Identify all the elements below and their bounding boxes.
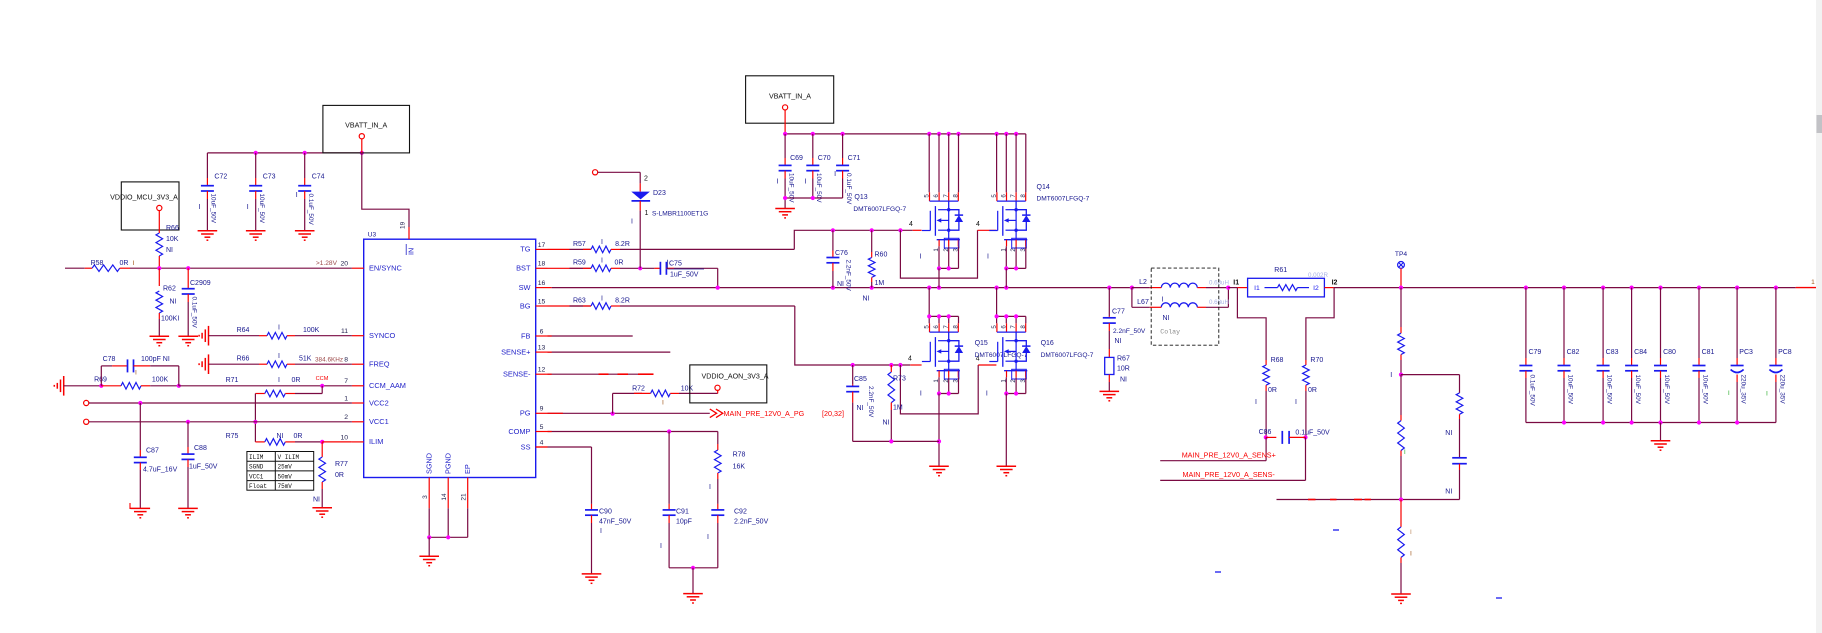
svg-text:100pF NI: 100pF NI — [141, 356, 170, 363]
svg-text:R66: R66 — [166, 225, 179, 232]
svg-text:8: 8 — [1020, 325, 1027, 329]
svg-text:EP: EP — [463, 464, 472, 474]
svg-text:I: I — [1410, 529, 1412, 536]
svg-text:2.2nF_50V: 2.2nF_50V — [734, 519, 769, 526]
svg-text:NI: NI — [1445, 430, 1452, 437]
svg-text:I: I — [278, 353, 280, 360]
svg-text:1: 1 — [1811, 279, 1815, 286]
svg-text:7: 7 — [943, 325, 950, 329]
svg-text:CCM_AAM: CCM_AAM — [369, 381, 406, 390]
ground below R77 — [312, 507, 332, 509]
svg-text:10pF: 10pF — [676, 519, 692, 526]
transistor Q13 DMT6007LFGQ-7 — [929, 192, 931, 201]
svg-text:VCC1: VCC1 — [369, 417, 389, 426]
svg-text:10: 10 — [340, 434, 348, 441]
svg-text:2: 2 — [644, 176, 648, 183]
svg-text:6: 6 — [1001, 194, 1008, 198]
svg-text:SW: SW — [519, 283, 531, 292]
svg-text:5: 5 — [991, 325, 998, 329]
svg-text:R77: R77 — [335, 461, 348, 468]
svg-text:C81: C81 — [1702, 349, 1715, 356]
wire output cap bank ground bus — [1526, 422, 1776, 424]
resistor R70 0R — [1306, 288, 1334, 360]
svg-text:I: I — [920, 254, 922, 261]
svg-text:R59: R59 — [573, 260, 586, 267]
svg-text:6: 6 — [933, 325, 940, 329]
ground below Q16 — [997, 465, 1017, 467]
svg-text:Q15: Q15 — [975, 340, 988, 347]
svg-text:I: I — [631, 219, 633, 226]
ground below Q15 — [929, 465, 949, 467]
transistor Q16 DMT6007LFGQ-7 — [996, 323, 998, 332]
svg-text:7: 7 — [1010, 325, 1017, 329]
svg-text:R67: R67 — [1117, 356, 1130, 363]
transistor Q14 DMT6007LFGQ-7 — [996, 192, 998, 201]
wire MAIN_PRE_12V0_A_SENS- net — [1305, 437, 1307, 480]
wire CCM_AAM net — [179, 385, 352, 387]
svg-text:NI: NI — [170, 299, 177, 306]
svg-text:1M: 1M — [875, 280, 885, 287]
ground below C73 — [246, 230, 266, 232]
svg-text:1M: 1M — [893, 405, 903, 412]
svg-text:C90: C90 — [599, 509, 612, 516]
wire VDDIO_MCU to R66 — [158, 211, 160, 233]
U3 pin 13 SENSE+ — [536, 351, 548, 353]
capacitor C70 10uF_50V — [812, 134, 814, 158]
svg-text:7: 7 — [344, 378, 348, 385]
capacitor C82 10uF_50V — [1563, 288, 1565, 358]
svg-text:BG: BG — [520, 301, 531, 310]
U3 pin 5 COMP — [536, 431, 548, 433]
svg-text:8: 8 — [952, 325, 959, 329]
svg-text:R78: R78 — [733, 452, 746, 459]
svg-text:TP4: TP4 — [1395, 251, 1408, 258]
svg-text:I: I — [278, 325, 280, 332]
svg-text:C87: C87 — [146, 448, 159, 455]
resistor R63 8.2R — [548, 305, 584, 307]
svg-text:MAIN_PRE_12V0_A_SENS+: MAIN_PRE_12V0_A_SENS+ — [1182, 450, 1276, 459]
U3 pin 19 IN stub — [408, 218, 410, 227]
resistor R71 0R — [255, 393, 264, 395]
svg-text:C73: C73 — [263, 174, 276, 181]
power port VBATT_IN_A top — [746, 76, 834, 123]
svg-text:D23: D23 — [653, 190, 666, 197]
svg-text:C2909: C2909 — [190, 280, 211, 287]
wire SW to Q15 drain comb — [928, 288, 930, 317]
svg-text:SENSE+: SENSE+ — [501, 347, 530, 356]
svg-text:NI: NI — [1120, 377, 1127, 384]
svg-text:[20,32]: [20,32] — [822, 409, 844, 418]
svg-text:I2: I2 — [1332, 280, 1338, 287]
svg-text:6: 6 — [933, 194, 940, 198]
svg-text:S-LMBR1100ET1G: S-LMBR1100ET1G — [652, 211, 708, 218]
svg-text:COMP: COMP — [508, 427, 530, 436]
resistor divider bottom — [1400, 500, 1402, 527]
wire Q15 source to ground — [938, 377, 940, 393]
svg-text:0R: 0R — [1268, 387, 1277, 394]
svg-text:4: 4 — [908, 355, 912, 362]
svg-text:100K: 100K — [303, 327, 320, 334]
svg-text:I: I — [600, 528, 602, 535]
scrollbar track — [1816, 0, 1822, 633]
resistor R66 51K — [209, 363, 260, 365]
svg-text:10K: 10K — [166, 236, 179, 243]
capacitor C91 10pF — [668, 432, 670, 504]
svg-text:PG: PG — [520, 409, 531, 418]
wire Q13 source to SW — [928, 134, 930, 192]
svg-text:100KI: 100KI — [161, 316, 179, 323]
svg-text:5: 5 — [540, 424, 544, 431]
inductor L67 NI — [1131, 288, 1133, 308]
resistor NI branch — [1459, 375, 1461, 393]
wire Q14 gate routing — [900, 230, 977, 278]
capacitor C84 10uF_50V — [1631, 288, 1633, 358]
svg-text:FB: FB — [521, 331, 531, 340]
ground below C74 — [295, 230, 315, 232]
svg-text:C85: C85 — [854, 376, 867, 383]
svg-text:PC8: PC8 — [1778, 349, 1792, 356]
svg-text:R68: R68 — [1271, 357, 1284, 364]
diode D23 S-LMBR1100ET1G — [593, 170, 598, 175]
capacitor C79 0.1uF_50V — [1525, 288, 1527, 358]
svg-text:21: 21 — [461, 493, 468, 501]
U3 pin 8 FREQ — [352, 363, 364, 365]
svg-text:DMT6007LFGQ-7: DMT6007LFGQ-7 — [975, 352, 1028, 359]
svg-text:R73: R73 — [893, 376, 906, 383]
ground rotated for R64 — [208, 326, 210, 346]
svg-text:0.1uF_50V: 0.1uF_50V — [845, 173, 852, 205]
svg-text:0.1uF_50V: 0.1uF_50V — [190, 297, 197, 329]
svg-text:8: 8 — [952, 194, 959, 198]
svg-text:MAIN_PRE_12V0_A_SENS-: MAIN_PRE_12V0_A_SENS- — [1183, 470, 1276, 479]
svg-text:I1: I1 — [1254, 285, 1260, 292]
U3 pin 16 SW — [536, 287, 548, 289]
power port VBATT_IN_A left — [323, 105, 410, 152]
svg-text:47nF_50V: 47nF_50V — [599, 519, 632, 526]
capacitor C81 10uF_50V — [1698, 288, 1700, 358]
node I2 — [1324, 287, 1333, 289]
svg-text:CCM: CCM — [316, 376, 329, 382]
svg-text:>1.28V: >1.28V — [316, 260, 338, 267]
svg-text:18: 18 — [538, 261, 546, 268]
svg-text:PC3: PC3 — [1739, 349, 1753, 356]
ground below U3 — [419, 555, 439, 557]
wire Q16 source to ground — [1005, 377, 1007, 393]
svg-text:I: I — [1766, 391, 1768, 398]
svg-text:R62: R62 — [163, 286, 176, 293]
svg-text:4.7uF_16V: 4.7uF_16V — [143, 467, 178, 474]
svg-text:TG: TG — [520, 245, 531, 254]
svg-text:I: I — [662, 400, 664, 407]
svg-text:NI: NI — [883, 420, 890, 427]
svg-text:R72: R72 — [632, 386, 645, 393]
wire C69 C70 C71 ground bus — [784, 179, 786, 209]
wire PG net — [548, 412, 710, 414]
U3 pin 2 VCC1 — [352, 421, 364, 423]
svg-text:R60: R60 — [875, 252, 888, 259]
ground below COMP network — [683, 593, 703, 595]
svg-text:SS: SS — [521, 442, 531, 451]
svg-text:8: 8 — [1020, 194, 1027, 198]
svg-text:9: 9 — [540, 406, 544, 413]
svg-text:R63: R63 — [573, 297, 586, 304]
svg-text:I2: I2 — [1313, 285, 1319, 292]
svg-text:10R: 10R — [1117, 366, 1130, 373]
svg-text:1uF_50V: 1uF_50V — [670, 272, 699, 279]
svg-text:C84: C84 — [1634, 349, 1647, 356]
resistor R62 NI 100K — [158, 268, 160, 286]
ground below C90 — [582, 573, 602, 575]
capacitor C86 0.1uF_50V — [1264, 435, 1268, 439]
svg-text:2: 2 — [344, 414, 348, 421]
wire VCC2 net — [89, 402, 352, 404]
U3 pin 10 ILIM — [352, 441, 364, 443]
svg-text:FREQ: FREQ — [369, 360, 390, 369]
svg-text:0.1uF_50V: 0.1uF_50V — [1295, 429, 1330, 436]
IC U3 buck controller body — [364, 239, 536, 477]
svg-text:NI: NI — [857, 405, 864, 412]
svg-text:I: I — [1728, 390, 1730, 397]
svg-text:0R: 0R — [120, 260, 129, 267]
off-page connector MAIN_PRE_12V0_A_PG — [710, 409, 717, 418]
wire MAIN_PRE_12V0_A_SENS+ net — [1265, 437, 1267, 460]
svg-text:10uF_50V: 10uF_50V — [815, 173, 822, 203]
svg-text:C69: C69 — [790, 155, 803, 162]
capacitor PC8 220u_35V — [1775, 288, 1777, 358]
wire COMP network bottom — [669, 567, 718, 569]
capacitor C90 47nF_50V — [591, 504, 593, 510]
svg-text:20: 20 — [340, 261, 348, 268]
svg-text:C80: C80 — [1663, 349, 1676, 356]
svg-text:V ILIM: V ILIM — [278, 454, 300, 461]
svg-text:50mV: 50mV — [278, 473, 293, 480]
capacitor PC3 220u_35V — [1736, 288, 1738, 358]
svg-text:L2: L2 — [1139, 279, 1147, 286]
svg-text:I: I — [804, 179, 806, 186]
resistor R58 0R — [65, 267, 85, 269]
U3 pin 17 TG — [536, 248, 548, 250]
svg-text:0R: 0R — [292, 377, 301, 384]
svg-text:10uF_50V: 10uF_50V — [1701, 375, 1708, 405]
U3 pin 11 SYNCO — [352, 335, 364, 337]
svg-text:VBATT_IN_A: VBATT_IN_A — [345, 122, 387, 130]
resistor R64 100K — [209, 335, 260, 337]
wire VBATT cap bus top-left — [207, 152, 361, 154]
svg-text:Colay: Colay — [1160, 329, 1180, 336]
wire SW net — [548, 287, 552, 289]
wire SENSE+ net — [548, 351, 671, 353]
svg-text:I: I — [247, 204, 249, 211]
resistor divider mid — [1400, 375, 1402, 415]
svg-text:100K: 100K — [152, 377, 169, 384]
svg-text:R70: R70 — [1310, 357, 1323, 364]
svg-text:6: 6 — [1001, 325, 1008, 329]
wire TG to gate bus — [620, 248, 794, 250]
capacitor C69 10uF_50V — [784, 134, 786, 158]
ground below C72 — [198, 230, 218, 232]
svg-text:C70: C70 — [818, 155, 831, 162]
svg-text:10uF_50V: 10uF_50V — [787, 173, 794, 203]
svg-text:C77: C77 — [1112, 309, 1125, 316]
svg-text:8.2R: 8.2R — [615, 241, 630, 248]
svg-text:I: I — [1162, 296, 1164, 303]
ground rotated for R66 — [208, 354, 210, 374]
U3 pin 12 SENSE- — [536, 373, 548, 375]
svg-text:Q14: Q14 — [1037, 184, 1050, 191]
svg-text:16K: 16K — [733, 464, 746, 471]
resistor R75 NI 0R — [255, 441, 264, 443]
svg-text:C91: C91 — [676, 509, 689, 516]
svg-text:I: I — [709, 484, 711, 491]
svg-text:U3: U3 — [368, 232, 377, 239]
svg-text:VCC2: VCC2 — [369, 398, 389, 407]
colay group dashed box — [1151, 268, 1219, 345]
svg-text:C92: C92 — [734, 509, 747, 516]
svg-text:220u_35V: 220u_35V — [1778, 375, 1785, 405]
svg-text:2.2nF_50V: 2.2nF_50V — [867, 386, 874, 418]
svg-text:4: 4 — [909, 221, 913, 228]
resistor R61 0.002R current sense — [1228, 287, 1237, 289]
wire SW to Q16 drain comb — [996, 288, 998, 317]
svg-text:10uF_50V: 10uF_50V — [210, 194, 217, 224]
U3 pin 20 EN/SYNC — [352, 267, 364, 269]
wire R71 to VCC1 node — [254, 394, 256, 442]
capacitor C78 100pF NI — [100, 366, 102, 386]
transistor Q15 DMT6007LFGQ-7 — [929, 323, 931, 332]
svg-text:VDDIO_AON_3V3_A: VDDIO_AON_3V3_A — [701, 373, 768, 381]
U3 pin 7 CCM_AAM — [352, 385, 364, 387]
wire feedback bottom rail — [1277, 499, 1460, 501]
svg-text:1: 1 — [645, 210, 649, 217]
wire Q14 source to SW — [996, 134, 998, 192]
svg-text:I: I — [1404, 449, 1406, 456]
svg-text:19: 19 — [400, 221, 407, 229]
svg-text:C74: C74 — [312, 174, 325, 181]
power port VDDIO_MCU_3V3_A — [121, 182, 179, 230]
svg-text:C82: C82 — [1567, 349, 1580, 356]
svg-text:I: I — [1390, 372, 1392, 379]
svg-text:I: I — [1410, 551, 1412, 558]
ground below R67 — [1100, 390, 1120, 392]
svg-text:5: 5 — [924, 194, 931, 198]
capacitor C76 2.2nF_50V NI — [832, 230, 834, 250]
svg-text:0.1uF_50V: 0.1uF_50V — [307, 194, 314, 226]
svg-text:I: I — [707, 534, 709, 541]
ground below C88 — [178, 507, 198, 509]
svg-text:I: I — [920, 391, 922, 398]
svg-text:NI: NI — [1115, 338, 1122, 345]
svg-text:I: I — [987, 254, 989, 261]
svg-text:6: 6 — [540, 328, 544, 335]
svg-text:VDDIO_MCU_3V3_A: VDDIO_MCU_3V3_A — [110, 194, 178, 202]
svg-text:R75: R75 — [226, 433, 239, 440]
svg-text:0R: 0R — [1308, 387, 1317, 394]
svg-text:C72: C72 — [214, 174, 227, 181]
U3 pin 4 SS — [536, 446, 548, 448]
svg-text:10uF_50V: 10uF_50V — [258, 194, 265, 224]
capacitor C77 2.2nF_50V NI — [1108, 288, 1110, 317]
svg-text:14: 14 — [441, 493, 448, 501]
wire BST node — [620, 267, 654, 269]
svg-text:I: I — [278, 377, 280, 384]
svg-text:Q16: Q16 — [1041, 340, 1054, 347]
node VCC2 terminal — [84, 400, 89, 405]
capacitor C87 4.7uF_16V — [139, 403, 141, 450]
svg-text:IN: IN — [407, 248, 416, 255]
svg-text:0R: 0R — [294, 433, 303, 440]
ground below cap bank — [1651, 440, 1671, 442]
svg-text:1uF_50V: 1uF_50V — [189, 464, 218, 471]
svg-text:I: I — [1255, 399, 1257, 406]
U3 pin 14 PGND — [447, 478, 449, 509]
U3 pin 18 BST — [536, 267, 548, 269]
node divider mid — [1399, 373, 1403, 377]
svg-text:3: 3 — [422, 495, 429, 499]
svg-text:NI: NI — [863, 296, 870, 303]
capacitor C2909 0.1uF_50V — [187, 268, 189, 289]
wire VBATT_IN_A left to bus — [361, 139, 363, 153]
capacitor C73 10uF_50V — [255, 153, 257, 178]
ground below R62 — [150, 335, 170, 337]
wire D23 to BST — [639, 211, 641, 269]
svg-text:5: 5 — [924, 325, 931, 329]
svg-text:ILIM: ILIM — [369, 437, 383, 446]
resistor R68 0R — [1237, 288, 1266, 360]
svg-text:I: I — [834, 171, 836, 178]
resistor R67 10R NI — [1108, 331, 1110, 349]
svg-text:NI: NI — [166, 247, 173, 254]
wire SENSE- net — [548, 373, 653, 375]
svg-text:I1: I1 — [1233, 280, 1239, 287]
svg-text:SGND: SGND — [425, 453, 434, 474]
svg-text:51K: 51K — [299, 356, 312, 363]
capacitor C75 1uF_50V — [654, 267, 660, 269]
U3 pin 6 FB — [536, 335, 548, 337]
svg-text:75mV: 75mV — [278, 483, 293, 490]
wire COMP net — [548, 431, 718, 433]
svg-text:C79: C79 — [1528, 349, 1541, 356]
wire SS net — [536, 446, 548, 448]
svg-text:NI: NI — [1163, 315, 1170, 322]
svg-text:C88: C88 — [194, 445, 207, 452]
svg-text:I: I — [601, 295, 603, 302]
svg-text:0.1uF_50V: 0.1uF_50V — [1528, 375, 1535, 407]
U3 pin 9 PG — [536, 412, 548, 414]
svg-text:I: I — [601, 258, 603, 265]
wire VBATT to drain bus — [784, 110, 786, 134]
svg-text:384.6KHz: 384.6KHz — [315, 357, 343, 364]
svg-text:10uF_50V: 10uF_50V — [1566, 375, 1573, 405]
svg-text:0.002R: 0.002R — [1308, 272, 1328, 279]
svg-text:I: I — [198, 204, 200, 211]
svg-text:PGND: PGND — [444, 453, 453, 474]
svg-text:C75: C75 — [669, 261, 682, 268]
wire VBATT bus to U3 IN pin — [362, 153, 409, 218]
capacitor C80 10uF_50V — [1660, 288, 1662, 358]
wire FB net — [548, 335, 633, 337]
svg-text:SGND: SGND — [249, 464, 264, 471]
power port VDDIO_AON_3V3_A — [690, 365, 767, 403]
svg-text:NI: NI — [313, 497, 320, 504]
svg-text:13: 13 — [538, 345, 546, 352]
svg-text:C83: C83 — [1606, 349, 1619, 356]
inductor L2 — [1132, 287, 1150, 289]
svg-text:C86: C86 — [1259, 429, 1272, 436]
svg-text:C78: C78 — [103, 356, 116, 363]
resistor R60 1M NI — [871, 230, 873, 252]
svg-text:R66: R66 — [237, 356, 250, 363]
wire MAIN_PRE_12V0_A output bus — [1334, 287, 1796, 289]
